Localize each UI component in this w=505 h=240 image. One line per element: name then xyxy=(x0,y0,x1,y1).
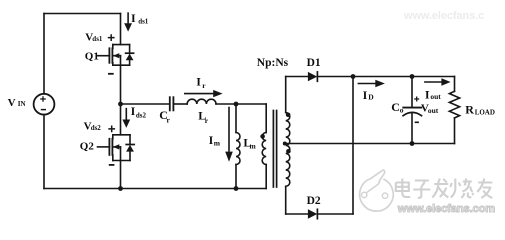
svg-text:I: I xyxy=(131,11,136,25)
svg-text:m: m xyxy=(250,142,257,151)
svg-text:IN: IN xyxy=(18,100,26,108)
svg-text:Q2: Q2 xyxy=(80,141,95,153)
svg-text:ds2: ds2 xyxy=(91,124,102,132)
svg-text:D1: D1 xyxy=(307,57,321,69)
svg-text:out: out xyxy=(430,92,441,101)
svg-text:www.elecfans.com: www.elecfans.com xyxy=(397,203,495,215)
svg-text:r: r xyxy=(167,115,171,124)
svg-text:Q1: Q1 xyxy=(85,50,99,62)
svg-text:o: o xyxy=(400,105,404,114)
svg-text:www.elecfans.c: www.elecfans.c xyxy=(403,10,484,22)
svg-text:out: out xyxy=(428,106,439,115)
svg-text:LOAD: LOAD xyxy=(475,109,495,117)
svg-text:I: I xyxy=(425,87,430,101)
svg-text:ds2: ds2 xyxy=(136,111,147,119)
svg-text:R: R xyxy=(465,102,474,116)
svg-text:r: r xyxy=(205,116,209,125)
svg-text:D2: D2 xyxy=(307,195,321,207)
svg-text:D: D xyxy=(368,93,374,102)
svg-text:Np:Ns: Np:Ns xyxy=(257,57,289,69)
svg-text:ds1: ds1 xyxy=(92,35,103,43)
svg-text:V: V xyxy=(8,97,16,109)
svg-text:C: C xyxy=(391,100,400,114)
svg-text:I: I xyxy=(363,88,368,102)
svg-text:I: I xyxy=(131,104,136,118)
svg-text:I: I xyxy=(196,75,201,89)
svg-text:ds1: ds1 xyxy=(138,18,149,26)
svg-text:r: r xyxy=(202,81,206,90)
svg-text:m: m xyxy=(214,139,221,148)
